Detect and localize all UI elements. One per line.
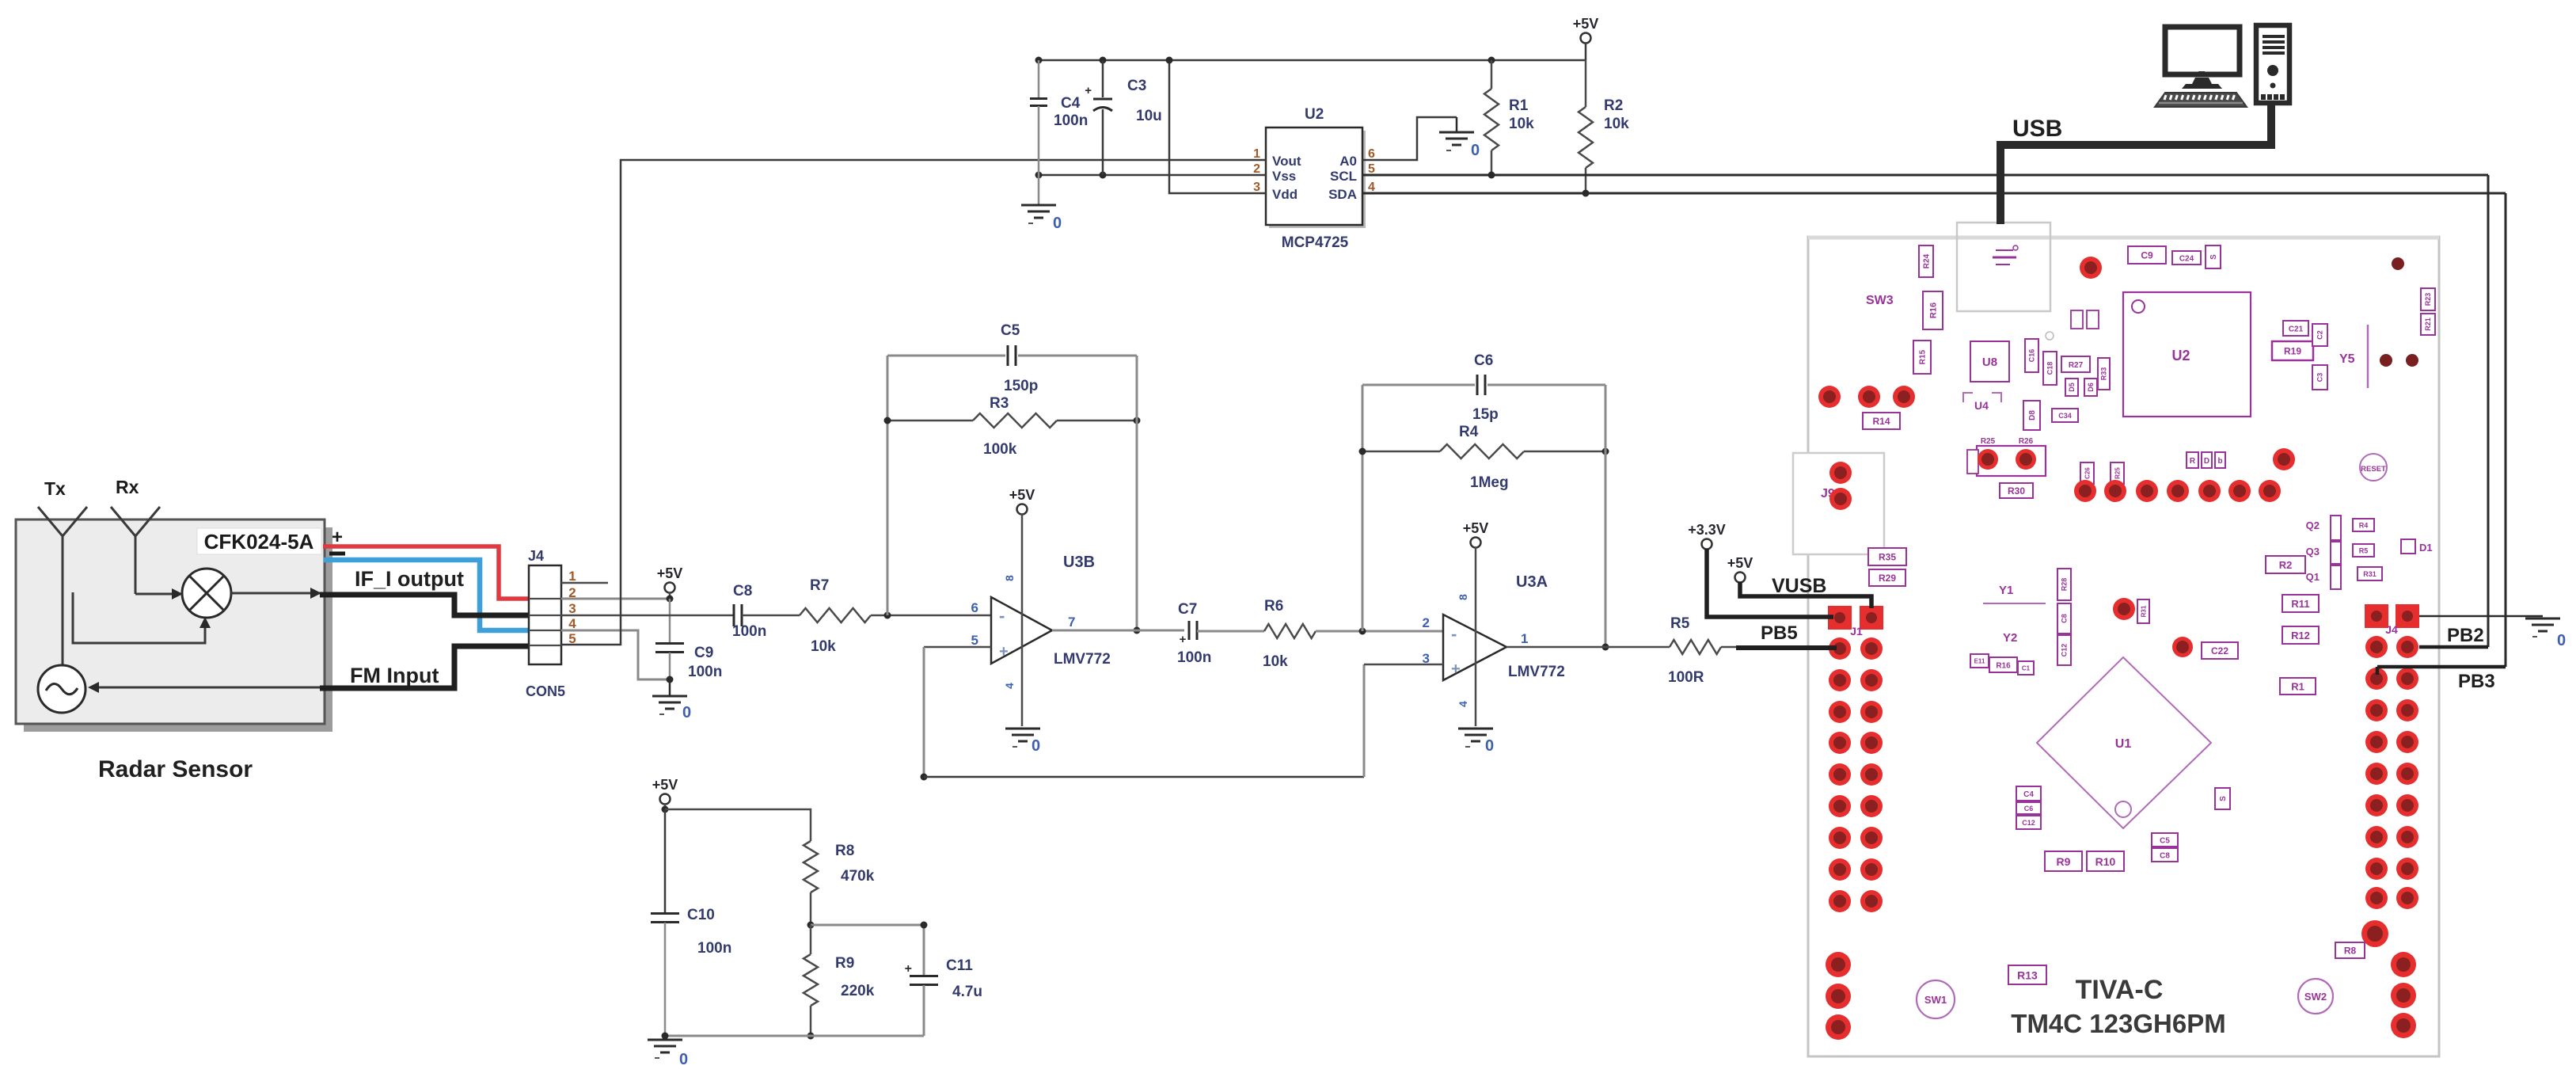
wire oscillator to mixer LO <box>73 592 211 643</box>
svg-text:100k: 100k <box>983 441 1017 458</box>
svg-text:6: 6 <box>1368 147 1375 161</box>
via pad (board top) <box>2080 257 2102 279</box>
svg-text:R25: R25 <box>2114 467 2121 479</box>
crystal Y5 (board) <box>2339 325 2368 388</box>
svg-text:R19: R19 <box>2284 346 2301 357</box>
svg-text:D6: D6 <box>2087 382 2095 392</box>
svg-text:7: 7 <box>1068 615 1075 630</box>
svg-text:+3.3V: +3.3V <box>1688 522 1726 538</box>
radar sensor block <box>16 519 332 732</box>
jumper labels R D b (board) <box>2187 452 2225 468</box>
capacitor C4 <box>1030 60 1088 175</box>
svg-text:U1: U1 <box>2115 737 2132 751</box>
svg-text:J1: J1 <box>1850 625 1863 637</box>
capacitor C24 (board) <box>2172 251 2201 264</box>
svg-text:C12: C12 <box>2061 644 2069 657</box>
resistor R3 <box>884 395 1141 458</box>
svg-text:R21: R21 <box>2424 318 2432 331</box>
svg-text:Y5: Y5 <box>2339 352 2355 366</box>
USB device connector on board <box>1957 223 2050 311</box>
svg-text:PB3: PB3 <box>2458 671 2495 692</box>
capacitor C11 <box>905 922 982 1037</box>
resistor R8 <box>804 841 875 929</box>
svg-text:CON5: CON5 <box>526 683 565 699</box>
svg-text:R28: R28 <box>2061 578 2069 592</box>
svg-text:Radar Sensor: Radar Sensor <box>98 756 253 782</box>
svg-text:IF_I output: IF_I output <box>355 567 464 591</box>
IC U8 (board) <box>1970 341 2009 382</box>
svg-text:R30: R30 <box>2008 485 2025 497</box>
svg-text:C8: C8 <box>2061 614 2069 623</box>
svg-text:Y2: Y2 <box>2003 631 2017 645</box>
capacitor C9 (board) <box>2128 246 2166 264</box>
wire mixer IF output <box>231 588 321 599</box>
wire feedback left vertical U3A <box>1362 385 1364 631</box>
svg-text:C21: C21 <box>2289 325 2304 333</box>
svg-text:100n: 100n <box>1177 649 1211 666</box>
resistor R11 (board) <box>2282 595 2319 612</box>
svg-text:C18: C18 <box>2046 362 2054 375</box>
svg-text:1: 1 <box>1521 631 1528 646</box>
diode D5 (board) <box>2065 379 2078 396</box>
svg-text:U2: U2 <box>1305 106 1324 123</box>
svg-text:10k: 10k <box>811 638 836 655</box>
svg-text:8: 8 <box>1003 575 1016 581</box>
svg-text:R24: R24 <box>1923 253 1932 268</box>
wire U3A output to R5 <box>1506 646 1670 649</box>
svg-text:150p: 150p <box>1004 378 1038 394</box>
switch SW2 (board) <box>2298 979 2333 1014</box>
transistor Q2 (board) <box>2306 516 2374 540</box>
svg-text:0: 0 <box>1471 142 1480 159</box>
ground bottom rail <box>648 1040 688 1068</box>
computer keyboard <box>2155 93 2247 107</box>
svg-text:+5V: +5V <box>1727 555 1753 571</box>
resistor R28 column (board) <box>2057 569 2071 665</box>
svg-text:R4: R4 <box>2359 521 2369 529</box>
ground right <box>2525 618 2566 649</box>
header R25 R26 (board) <box>1967 437 2046 476</box>
svg-text:5: 5 <box>1368 162 1375 176</box>
svg-text:R2: R2 <box>1604 97 1623 114</box>
capacitor C8 <box>732 583 766 640</box>
crystal Y1 (board) <box>1983 584 2046 603</box>
svg-text:C5: C5 <box>1001 322 1020 339</box>
capacitor C3 (board) <box>2312 365 2327 390</box>
svg-text:100n: 100n <box>688 664 722 680</box>
header J4 (board right) <box>2365 604 2419 909</box>
pad column left <box>1829 462 1852 510</box>
svg-text:+5V: +5V <box>657 565 683 581</box>
svg-text:R5: R5 <box>1670 615 1690 632</box>
svg-text:b: b <box>2217 457 2222 466</box>
capacitors C5 C8 (board) <box>2152 833 2178 862</box>
svg-text:C24: C24 <box>2179 254 2194 263</box>
ground under U3B <box>1005 729 1040 755</box>
svg-text:U3A: U3A <box>1516 573 1548 591</box>
svg-text:R13: R13 <box>2017 969 2038 981</box>
resistor R21 (board) <box>2421 314 2435 335</box>
wire top +5V rail <box>1035 57 1586 64</box>
wire C7 to R6 <box>1197 630 1264 633</box>
svg-text:10k: 10k <box>1263 653 1288 670</box>
svg-text:R27: R27 <box>2069 361 2084 370</box>
J4 pin numbers <box>568 569 576 646</box>
svg-text:4: 4 <box>568 616 576 631</box>
svg-text:0: 0 <box>679 1051 688 1068</box>
svg-text:R5: R5 <box>2359 546 2369 554</box>
svg-text:Rx: Rx <box>116 477 139 497</box>
svg-text:C8: C8 <box>733 583 752 599</box>
capacitor C6 <box>1362 352 1605 423</box>
capacitor C16 (board) <box>2025 339 2038 372</box>
wire reference node horizontal <box>924 776 1364 778</box>
ground under C9 <box>652 679 691 721</box>
resistor R24 (board) <box>1919 245 1933 277</box>
svg-text:6: 6 <box>971 600 978 615</box>
capacitor C5 <box>887 322 1137 394</box>
wire Vout pin1 to J4 pin5 <box>561 160 1266 645</box>
resistor R9 (board) <box>2045 851 2082 871</box>
capacitor C21 (board) <box>2283 321 2308 336</box>
svg-text:220k: 220k <box>841 983 875 999</box>
resistor R10 (board) <box>2087 851 2124 871</box>
svg-text:U2: U2 <box>2171 348 2190 363</box>
wire divider node <box>811 924 924 927</box>
wire U3B output <box>1052 630 1184 632</box>
resistor R30 (board) <box>2000 483 2033 498</box>
svg-text:Vss: Vss <box>1272 169 1296 184</box>
dot pair right <box>2380 354 2392 367</box>
wire R6 to U3A pin2 <box>1316 628 1443 635</box>
resistor R27 (board) <box>2061 356 2090 372</box>
label CFK024-5A <box>197 528 321 554</box>
svg-text:0: 0 <box>1053 215 1062 232</box>
svg-text:R12: R12 <box>2291 630 2310 641</box>
MCU U2 (board) <box>2123 292 2251 417</box>
svg-text:1Meg: 1Meg <box>1470 474 1509 491</box>
resistor R29 (board) <box>1869 569 1905 586</box>
svg-text:R33: R33 <box>2100 367 2108 381</box>
svg-text:R1: R1 <box>1509 97 1529 114</box>
svg-text:C4: C4 <box>2023 790 2034 799</box>
wire J4 pin2 to +5V node <box>561 598 670 600</box>
svg-text:R1: R1 <box>2291 680 2304 692</box>
svg-text:10k: 10k <box>1509 116 1534 132</box>
svg-text:R26: R26 <box>2019 437 2034 446</box>
wire FM Input thick <box>320 646 529 688</box>
svg-text:R11: R11 <box>2291 598 2309 610</box>
capacitor C3 <box>1085 60 1162 175</box>
svg-text:8: 8 <box>1457 594 1469 600</box>
connector J9 (board left edge) <box>1793 453 1884 554</box>
svg-text:R29: R29 <box>1879 573 1896 584</box>
svg-text:SDA: SDA <box>1328 187 1357 202</box>
wire U3B pin5 vertical <box>921 647 928 781</box>
resistor R14 (board) <box>1863 413 1900 429</box>
resistor R33 (board) <box>2098 358 2110 390</box>
svg-text:R15: R15 <box>1919 349 1928 364</box>
power +3.3V <box>1688 522 1833 617</box>
wire USB cable <box>2000 103 2271 224</box>
svg-text:PB2: PB2 <box>2447 625 2484 646</box>
capacitor C34 (board) <box>2052 409 2078 422</box>
wire U3B pin5 <box>924 646 991 649</box>
capacitor C26 (board) <box>2080 462 2094 484</box>
svg-text:C7: C7 <box>1178 601 1197 618</box>
svg-text:U4: U4 <box>1974 399 1989 412</box>
svg-text:R31: R31 <box>2140 605 2147 617</box>
svg-text:1: 1 <box>1253 147 1260 161</box>
components under Y2 (board) <box>1970 654 2034 675</box>
svg-text:4: 4 <box>1368 181 1375 194</box>
svg-text:SW3: SW3 <box>1866 294 1894 307</box>
capacitors C4 C6 C12 (board) <box>2016 786 2041 829</box>
wire IF_I output thick <box>320 595 529 615</box>
svg-text:VUSB: VUSB <box>1772 575 1826 597</box>
svg-text:R16: R16 <box>1996 661 2011 670</box>
capacitor C9 <box>655 599 722 683</box>
svg-text:+: + <box>905 962 912 976</box>
svg-text:+: + <box>1451 660 1461 678</box>
wire ground rail bottom <box>662 1033 925 1040</box>
wire J4 pin3 to C8 <box>561 615 734 617</box>
svg-text:C5: C5 <box>2160 836 2170 845</box>
svg-text:R4: R4 <box>1459 424 1479 440</box>
svg-text:J4: J4 <box>2385 623 2398 636</box>
svg-text:100n: 100n <box>697 940 731 957</box>
wire R5 to PB5 pad <box>1721 647 1837 648</box>
pads above R14 <box>1818 386 1915 408</box>
svg-text:-: - <box>999 606 1005 626</box>
svg-text:2: 2 <box>1253 162 1260 176</box>
svg-text:+: + <box>999 643 1009 660</box>
switch SW1 (board) <box>1917 980 1955 1018</box>
resistor R1 <box>1484 60 1534 179</box>
svg-text:+: + <box>1085 84 1092 97</box>
svg-text:1: 1 <box>568 569 576 584</box>
svg-text:R31: R31 <box>2363 570 2377 578</box>
resistor R23 (board) <box>2421 288 2435 310</box>
svg-text:S: S <box>2219 796 2228 801</box>
svg-text:RESET: RESET <box>2361 465 2386 474</box>
power +5V divider <box>652 777 678 813</box>
svg-text:R3: R3 <box>990 395 1009 412</box>
svg-text:Vdd: Vdd <box>1272 187 1297 202</box>
svg-text:C34: C34 <box>2058 412 2072 420</box>
svg-text:R8: R8 <box>835 843 854 859</box>
svg-text:C3: C3 <box>1127 78 1146 94</box>
svg-text:2: 2 <box>1423 615 1430 630</box>
svg-text:R16: R16 <box>1928 303 1938 318</box>
svg-text:A0: A0 <box>1339 154 1357 169</box>
svg-text:0: 0 <box>2557 632 2566 649</box>
mixer <box>182 569 231 618</box>
component S1 (board) <box>2206 245 2221 268</box>
svg-text:U8: U8 <box>1982 356 1997 369</box>
resistor R16 (board) <box>1923 291 1943 329</box>
resistor R6 <box>1263 598 1316 670</box>
capacitor C2 (board) <box>2312 324 2327 346</box>
pad row middle (board) <box>2074 448 2295 502</box>
svg-text:SCL: SCL <box>1330 169 1357 184</box>
svg-text:3: 3 <box>1253 181 1260 194</box>
svg-text:R6: R6 <box>1264 598 1283 615</box>
svg-text:LMV772: LMV772 <box>1054 651 1111 668</box>
wire U3A pin3 <box>1364 664 1443 777</box>
svg-text:C9: C9 <box>694 645 713 661</box>
wire Vdd pin3 to +5V rail <box>1169 60 1266 193</box>
resistor R9 <box>804 925 875 1040</box>
capacitor C22 (board) <box>2172 637 2238 659</box>
svg-text:C10: C10 <box>687 907 715 923</box>
svg-text:C6: C6 <box>2024 805 2034 813</box>
bottom right pads (board) <box>2335 920 2416 1038</box>
svg-text:100n: 100n <box>732 623 766 640</box>
svg-text:TIVA-C: TIVA-C <box>2076 975 2164 1005</box>
power +5V at U3A <box>1463 520 1489 726</box>
wire C8 to R7 <box>742 615 800 617</box>
svg-text:10u: 10u <box>1136 108 1162 124</box>
wire feedback left vertical U3B <box>887 356 889 615</box>
wire Rx to mixer <box>135 588 183 599</box>
power +5V VUSB <box>1727 555 1871 608</box>
svg-text:C22: C22 <box>2211 645 2228 656</box>
power +5V at U3B <box>1009 487 1035 726</box>
resistor R4 <box>1359 424 1609 491</box>
wire board J4 to ground <box>2419 615 2543 618</box>
power +5V top <box>1573 16 1599 60</box>
svg-text:0: 0 <box>1485 737 1494 755</box>
wire FM input to oscillator <box>88 682 325 693</box>
svg-text:C9: C9 <box>2141 250 2153 261</box>
svg-text:C6: C6 <box>1474 352 1493 369</box>
wire SDA pin4 to PB3 <box>1362 193 2506 675</box>
svg-text:+: + <box>1180 633 1187 646</box>
svg-text:FM Input: FM Input <box>350 664 439 687</box>
svg-text:4: 4 <box>1003 683 1016 689</box>
IC U4 (board) <box>1963 393 2001 412</box>
svg-text:U3B: U3B <box>1063 554 1095 571</box>
svg-text:C16: C16 <box>2028 349 2036 363</box>
svg-text:+5V: +5V <box>1573 16 1599 32</box>
svg-text:C11: C11 <box>946 957 973 974</box>
svg-text:Vout: Vout <box>1272 154 1301 169</box>
computer tower <box>2256 25 2289 103</box>
svg-text:10k: 10k <box>1604 116 1629 132</box>
antenna Rx <box>111 477 160 594</box>
ground under C4 <box>1021 175 1062 232</box>
svg-text:R35: R35 <box>1879 552 1896 563</box>
wire J4 pin1 stub <box>561 582 608 584</box>
svg-text:C26: C26 <box>2084 467 2091 479</box>
svg-text:D8: D8 <box>2028 410 2037 421</box>
header J1 (board left) <box>1828 606 1883 912</box>
svg-text:Tx: Tx <box>44 478 66 499</box>
svg-text:+5V: +5V <box>652 777 678 793</box>
resistor R19 (board) <box>2272 341 2313 360</box>
svg-text:E11: E11 <box>1974 658 1985 665</box>
diode D1 (board) <box>2401 539 2433 554</box>
svg-text:C12: C12 <box>2022 819 2035 827</box>
ground at A0 <box>1439 117 1480 159</box>
power +5V at J4 <box>657 565 683 603</box>
svg-text:R9: R9 <box>2057 855 2071 868</box>
resistor R2 (board) <box>2266 556 2305 573</box>
wire Vss pin2 ground rail <box>1035 172 1267 179</box>
svg-text:100R: 100R <box>1668 669 1704 686</box>
svg-text:R14: R14 <box>1872 416 1890 427</box>
svg-text:R23: R23 <box>2424 293 2432 306</box>
svg-text:D: D <box>2204 457 2209 466</box>
transistor Q1 (board) <box>2306 565 2382 589</box>
svg-text:-: - <box>1451 624 1457 644</box>
svg-text:Y1: Y1 <box>1999 584 2013 597</box>
resistor R13 (board) <box>2008 965 2046 984</box>
svg-text:Q3: Q3 <box>2306 546 2320 558</box>
svg-text:5: 5 <box>971 633 978 648</box>
svg-text:+5V: +5V <box>1009 487 1035 503</box>
svg-text:R9: R9 <box>835 955 854 972</box>
op-amp U3B <box>971 554 1111 689</box>
svg-text:C1: C1 <box>2022 665 2031 672</box>
pad with R31 (board) <box>2113 598 2149 623</box>
svg-text:C3: C3 <box>2316 373 2324 382</box>
capacitor C18 (board) <box>2043 352 2057 385</box>
svg-text:SW2: SW2 <box>2304 991 2327 1003</box>
svg-text:LMV772: LMV772 <box>1508 664 1565 680</box>
resistor R1 (board) <box>2280 678 2316 695</box>
oscillator VCO <box>38 665 85 713</box>
svg-text:CFK024-5A: CFK024-5A <box>204 530 314 554</box>
TIVA-C launchpad board outline <box>1808 237 2439 1056</box>
resistor R5 <box>1668 615 1721 686</box>
wire +5V red to J4 pin2 <box>323 546 560 599</box>
connector J4 CON5 <box>526 548 565 699</box>
transistor Q3 (board) <box>2306 542 2374 564</box>
minus terminal <box>329 552 345 556</box>
svg-text:+5V: +5V <box>1463 520 1489 536</box>
svg-text:SW1: SW1 <box>1924 994 1947 1006</box>
MCU U1 diamond (board) <box>2037 657 2211 828</box>
svg-text:Q2: Q2 <box>2306 519 2320 531</box>
svg-text:PB5: PB5 <box>1761 622 1798 644</box>
diode D6 (board) <box>2084 379 2097 396</box>
capacitor C7 <box>1177 601 1211 666</box>
svg-text:R7: R7 <box>810 577 829 594</box>
svg-text:R25: R25 <box>1981 437 1996 446</box>
ground under U3A <box>1458 729 1494 755</box>
resistor R2 <box>1579 60 1629 197</box>
svg-text:Q1: Q1 <box>2306 571 2320 583</box>
svg-text:R2: R2 <box>2279 559 2293 571</box>
svg-text:J4: J4 <box>528 548 544 564</box>
resistor R35 (board) <box>1868 548 1906 565</box>
svg-text:S: S <box>2209 254 2218 260</box>
svg-text:MCP4725: MCP4725 <box>1282 234 1349 251</box>
svg-text:TM4C 123GH6PM: TM4C 123GH6PM <box>2011 1009 2225 1038</box>
wire feedback right vertical U3A <box>1602 385 1609 651</box>
resistor R25b (board) <box>2111 462 2124 484</box>
component S2 (board) <box>2215 788 2230 809</box>
IC U2 MCP4725 <box>1253 106 1375 251</box>
svg-text:R10: R10 <box>2095 855 2116 868</box>
svg-text:0: 0 <box>1032 737 1040 755</box>
computer monitor <box>2165 27 2240 89</box>
svg-text:3: 3 <box>568 601 576 616</box>
svg-text:R: R <box>2190 457 2196 466</box>
capacitor C10 <box>651 809 731 1036</box>
